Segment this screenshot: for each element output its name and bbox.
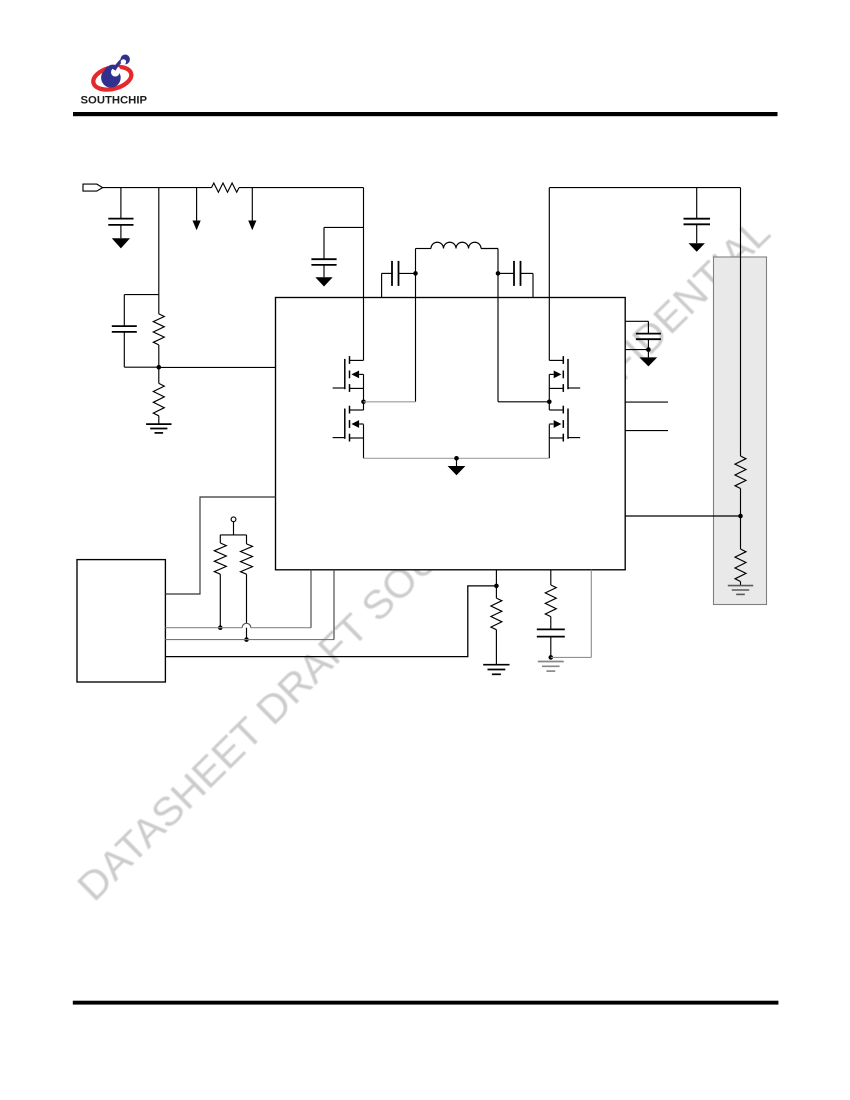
svg-text:SOUTHCHIP: SOUTHCHIP: [81, 95, 148, 107]
